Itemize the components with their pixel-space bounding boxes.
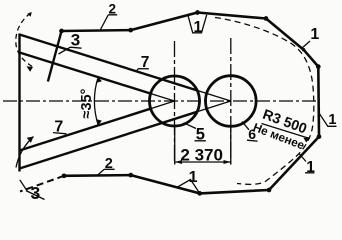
svg-text:1: 1	[310, 26, 319, 43]
svg-text:1: 1	[194, 19, 203, 36]
label 1 pennant (top)	[188, 15, 207, 33]
svg-text:≈35°: ≈35°	[79, 88, 95, 118]
hitch circle 6 (right)	[206, 76, 257, 127]
hitch circle 5 (left)	[150, 76, 200, 126]
turned-position outline (dashed curve, right)	[215, 18, 314, 185]
body outline solid polyline (top)	[62, 13, 320, 194]
svg-text:2 370: 2 370	[180, 146, 223, 165]
vertex dot (266,18.5)	[264, 16, 269, 21]
axis center line (dash-dot horizontal)	[3, 100, 318, 102]
crossbar rod (top left, item 3)	[48, 31, 62, 82]
dimension 2370: line with arrows	[175, 161, 231, 163]
tow line lower outer (to right hitch center)	[20, 112, 198, 169]
extension line right (solid below circle)	[230, 127, 232, 165]
vertex dot (303.6,49.7)	[302, 48, 305, 51]
angle dimension arc 35 deg	[94, 77, 98, 125]
swing arrow (thin solid arc, bottom left)	[16, 137, 34, 168]
vertex dot (64,175.8)	[62, 173, 67, 178]
turned-position arc (dashed, top left) with arrow	[16, 13, 33, 67]
arc arrowhead top	[96, 77, 102, 83]
vertex dot (197.5,12.5)	[195, 10, 200, 15]
arrowhead at top of turned-position arc	[27, 12, 32, 17]
vertex dot (269,190)	[267, 188, 272, 193]
front beam of towed unit (vertical, left)	[18, 34, 20, 172]
tow line upper inner (to left hitch center)	[20, 53, 153, 95]
vertex dot (130.7,30.1)	[128, 28, 133, 33]
extension line left (solid below circle)	[174, 127, 176, 165]
svg-text:1: 1	[328, 112, 336, 128]
arc arrowhead bottom	[96, 119, 102, 125]
tow line lower inner (to left hitch center)	[20, 108, 153, 150]
vertical center line left circle	[174, 41, 176, 165]
vertex dot (199.7,193.4)	[197, 191, 202, 196]
tow line upper outer (to right hitch center)	[20, 35, 198, 91]
vertex dot (318.3,66.6)	[316, 64, 321, 69]
vertex dot (61.5,31)	[59, 29, 64, 34]
vertical center line right circle	[230, 38, 232, 165]
vertex dot (130.8,175.1)	[128, 173, 133, 178]
body outline hidden part (dashed, bottom left)	[20, 176, 64, 192]
vertex dot (319,136.6)	[317, 134, 322, 139]
